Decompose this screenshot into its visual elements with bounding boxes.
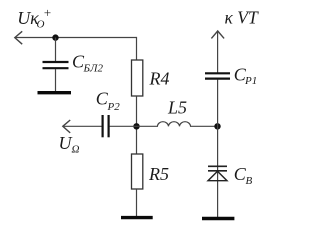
wire CP2 to node B [110,125,137,127]
node C mid-right junction [214,123,220,129]
ground under R5 [121,216,153,219]
node A top junction [52,34,58,40]
label CP2 [96,89,120,113]
svg-text:B: B [246,175,253,187]
svg-text:R4: R4 [149,69,170,89]
label CB [234,164,253,187]
resistor R5 [132,154,143,189]
capacitor CBL2 [43,62,69,68]
varactor CB diode triangle [208,171,227,181]
arrow output U-omega (left) [63,120,70,133]
svg-text:P2: P2 [107,101,121,113]
inductor L5 [137,122,218,127]
wire CBL2 to ground [55,69,57,92]
capacitor CP1 [205,73,230,78]
label CBL2 [72,52,103,75]
svg-text:P1: P1 [244,75,257,87]
varactor CB plates [208,166,227,171]
svg-text:U: U [59,133,73,153]
resistor R4 [132,60,143,96]
ground under CBL2 [38,91,72,94]
wire VT arrow to CP1 [217,32,219,73]
arrow to VT (up) [211,31,224,38]
svg-text:R5: R5 [148,164,169,184]
wire node A to CBL2 [55,38,57,62]
node B mid-left junction [133,123,139,129]
label U-omega [59,133,80,156]
svg-text:Ω: Ω [72,144,80,156]
svg-text:L5: L5 [167,98,187,118]
capacitor CP2 [103,115,109,137]
wire top bus corner down to R4 [136,37,138,60]
label CP1 [234,65,257,88]
arrow output Uko (left) [15,31,22,44]
svg-text:O: O [37,19,45,31]
ground under CB [202,217,234,220]
svg-text:БЛ2: БЛ2 [83,63,104,75]
svg-text:κ VT: κ VT [225,8,259,28]
wire arrow to CP2 [64,125,102,127]
wire R4 to node B [136,96,138,154]
wire top horizontal bus [16,37,137,39]
svg-text:+: + [43,5,52,20]
wire CP1 to node C and through varactor to ground [217,80,219,219]
wire R5 to ground [136,189,138,217]
label Uko+ [17,5,52,31]
